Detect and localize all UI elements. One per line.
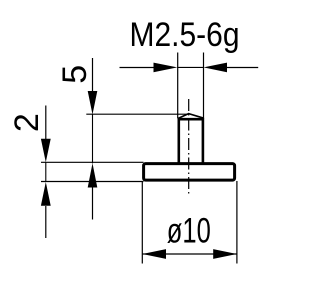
disc dim arrow right-pointing (213, 249, 237, 259)
thread dim line left tail (120, 67, 155, 69)
disc dim extension line left (141, 181, 143, 264)
disc dim line (142, 253, 237, 255)
disc body (144, 164, 235, 181)
disc bottom extension line (41, 181, 144, 183)
dim 2 arrow up (41, 182, 51, 206)
dim 5 line middle segment (92, 114, 94, 163)
dim 2 line upper (45, 106, 47, 141)
svg-text:5: 5 (56, 65, 94, 84)
thread dim line right tail (227, 67, 259, 69)
threaded stud body (179, 119, 203, 163)
dim 2 arrow down (41, 139, 51, 163)
thread dim arrow left-pointing (204, 63, 228, 73)
dim 5 extension line (stud top) (86, 113, 188, 115)
thread dim line middle segment (177, 66, 203, 68)
stud chamfer cone (178, 114, 204, 119)
thread dim extension line right (203, 53, 205, 119)
dim 5 arrow down (88, 91, 98, 115)
svg-text:2: 2 (8, 113, 46, 132)
dim 5 line lower (92, 187, 94, 220)
disc dim arrow left-pointing (142, 249, 166, 259)
dim 2 line lower (45, 206, 47, 238)
dim 5 line upper (92, 58, 94, 92)
dim 2 line middle segment (45, 162, 47, 182)
thread dim extension line left (177, 53, 179, 119)
disc top extension line (41, 161, 144, 163)
svg-text:M2.5-6g: M2.5-6g (130, 16, 240, 54)
dim 5 arrow up (88, 163, 98, 187)
thread dim arrow right-pointing (154, 63, 178, 73)
svg-text:ø10: ø10 (167, 211, 211, 251)
disc dim extension line right (236, 181, 238, 264)
centerline (188, 99, 190, 194)
